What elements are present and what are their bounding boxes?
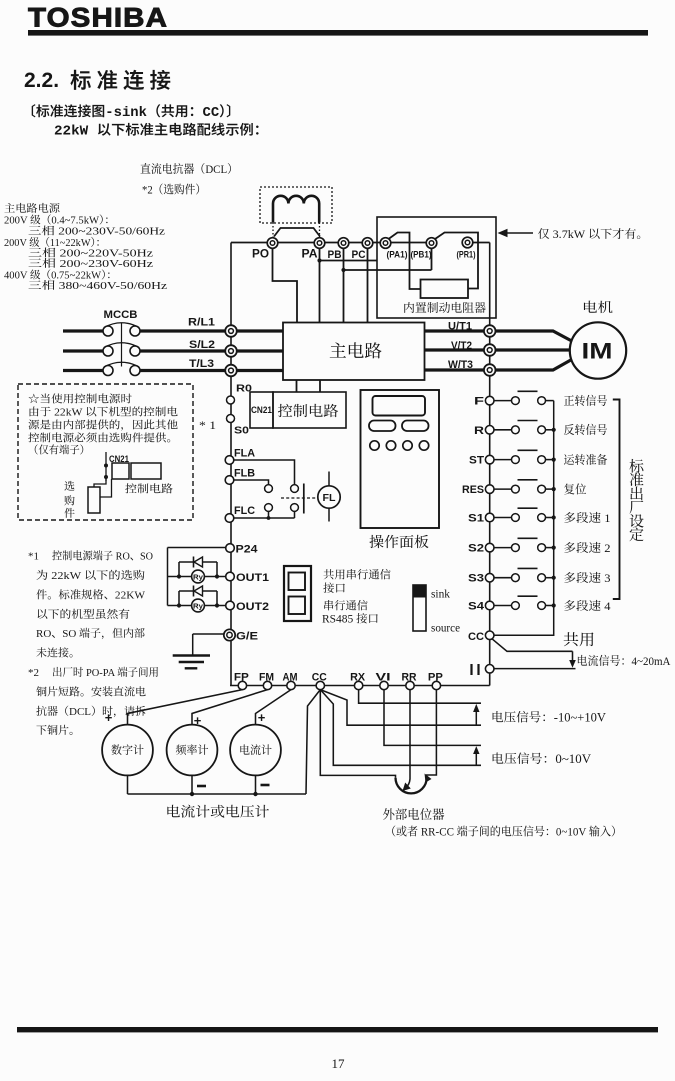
meter current: [230, 725, 281, 776]
wire G/E to ground: [193, 634, 224, 655]
subheading line 2: [54, 123, 268, 140]
wire R/L1: [63, 329, 283, 332]
svg-text:为 22kW 以下的选购: 为 22kW 以下的选购: [36, 569, 145, 582]
svg-text:S/L2: S/L2: [189, 339, 215, 351]
terminal FM bottom: [259, 672, 274, 690]
wire CC return VI: [320, 690, 481, 766]
main circuit box: [283, 323, 425, 381]
svg-text:接口: 接口: [323, 582, 346, 595]
junction S2 common: [552, 546, 556, 550]
mini label control circuit: [125, 483, 173, 496]
label S2 function: [564, 541, 611, 555]
wire T/L3: [63, 369, 283, 372]
svg-text:+: +: [194, 713, 202, 728]
terminal S3: [468, 573, 494, 585]
svg-text:内置制动电阻器: 内置制动电阻器: [403, 301, 486, 315]
plus sign meter3: [258, 710, 266, 725]
svg-text:P24: P24: [236, 544, 258, 556]
terminal T/L3: [189, 358, 237, 376]
mini label option: [64, 480, 75, 520]
terminal R0: [227, 383, 253, 405]
svg-text:R/L1: R/L1: [188, 317, 215, 329]
wire PB1 jumper: [435, 233, 478, 289]
label voltage signal 1: [491, 711, 606, 725]
mini connector box: [112, 463, 129, 479]
wire V/T2: [425, 348, 571, 351]
terminal PO: [252, 238, 278, 261]
svg-text:三相 380~460V-50/60Hz: 三相 380~460V-50/60Hz: [28, 279, 167, 292]
plus sign meter2: [194, 713, 202, 728]
label DCL option: [142, 183, 206, 197]
label DCL reactor: [140, 162, 238, 176]
svg-text:T/L3: T/L3: [189, 358, 214, 370]
terminal PA: [302, 238, 325, 261]
terminal P24: [226, 544, 258, 556]
minus sign meter2: [197, 785, 206, 788]
connector CN21: [250, 392, 273, 428]
label S1 function: [564, 511, 611, 525]
svg-text:S4: S4: [468, 601, 485, 613]
terminal PA1: [380, 238, 407, 261]
terminal FP bottom: [234, 672, 249, 690]
svg-text:铜片短路。安装直流电: 铜片短路。安装直流电: [36, 686, 146, 699]
section heading 2.2: [24, 64, 176, 95]
switch contact S1: [494, 508, 554, 521]
label S3 function: [564, 571, 611, 585]
control circuit box: [273, 392, 346, 428]
svg-text:未连接。: 未连接。: [36, 647, 80, 660]
svg-text:2.2.: 2.2.: [24, 69, 59, 92]
mini wires: [94, 478, 112, 497]
diode D1 branch: [179, 562, 217, 577]
svg-text:定: 定: [629, 527, 644, 544]
svg-text:电机: 电机: [582, 300, 614, 315]
wire switch common collector: [493, 401, 554, 636]
terminal FLB: [225, 468, 255, 485]
operation panel box: [361, 390, 440, 528]
relay Ry1: [192, 570, 205, 583]
svg-text:S1: S1: [468, 513, 484, 525]
svg-text:共用: 共用: [563, 632, 595, 649]
wire W/T3: [425, 360, 571, 370]
svg-text:（或者 RR-CC 端子间的电压信号：0~10V 输入）: （或者 RR-CC 端子间的电压信号：0~10V 输入）: [385, 825, 622, 839]
ground: [173, 656, 210, 669]
Toshiba logo text: [28, 3, 168, 33]
terminal R: [474, 425, 494, 437]
svg-text:W/T3: W/T3: [448, 359, 473, 371]
svg-text:操作面板: 操作面板: [369, 534, 430, 551]
bracket standard settings: [613, 400, 620, 600]
relay contact FL: [265, 484, 304, 519]
junction RES common: [552, 487, 556, 491]
junction S4 common: [552, 603, 556, 607]
terminal VI bottom: [376, 672, 391, 690]
terminal ST: [469, 455, 494, 467]
svg-text:控制电路: 控制电路: [278, 403, 340, 420]
terminal PB1: [411, 238, 437, 261]
FL actuator dashed link: [281, 497, 318, 499]
svg-text:PB: PB: [328, 249, 342, 261]
label S4 function: [564, 599, 611, 613]
wire CC return RX: [320, 690, 481, 726]
arrow only below 3.7kW: [498, 229, 534, 237]
terminal CC: [468, 631, 494, 643]
junction S3 common: [552, 576, 556, 580]
svg-text:*2: *2: [28, 667, 39, 679]
wire stub to control 1: [296, 380, 298, 392]
svg-text:电流计: 电流计: [239, 744, 272, 757]
svg-text:(PA1): (PA1): [387, 250, 408, 261]
label standard factory setting: [629, 459, 644, 545]
terminal PR1: [457, 237, 476, 260]
svg-text:CC: CC: [468, 631, 484, 643]
terminal FLA: [225, 448, 255, 465]
keypad keys: [370, 441, 429, 450]
svg-text:多段速 1: 多段速 1: [564, 511, 611, 525]
svg-text:外部电位器: 外部电位器: [383, 807, 445, 822]
label F function: [564, 394, 608, 408]
footer rule: [17, 1027, 658, 1032]
svg-text:G/E: G/E: [236, 631, 258, 643]
wire VI signal: [384, 690, 481, 746]
svg-text:*2（选购件）: *2（选购件）: [142, 183, 206, 197]
label operation panel: [369, 534, 430, 551]
svg-text:* 1: * 1: [199, 420, 216, 432]
svg-text:PA: PA: [302, 249, 318, 261]
label common serial: [323, 569, 391, 596]
label main circuit: [329, 341, 383, 361]
svg-text:三相 200~230V-50/60Hz: 三相 200~230V-50/60Hz: [28, 225, 165, 238]
svg-text:三相 200~230V-60Hz: 三相 200~230V-60Hz: [28, 257, 153, 270]
label external potentiometer: [383, 807, 445, 822]
svg-text:由于 22kW 以下机型的控制电: 由于 22kW 以下机型的控制电: [28, 406, 178, 419]
wire top terminal row: [231, 242, 432, 244]
svg-text:F: F: [474, 396, 484, 408]
arrow voltage signal 1: [473, 704, 479, 725]
terminal F: [474, 396, 494, 408]
diode D2: [194, 586, 203, 597]
bottom terminal rail: [230, 685, 490, 687]
junctions OUT2: [177, 603, 219, 607]
svg-text:22kW 以下标准主电路配线示例：: 22kW 以下标准主电路配线示例：: [54, 123, 268, 140]
label R function: [564, 423, 608, 437]
svg-text:FM: FM: [259, 672, 274, 684]
arrow current signal: [569, 651, 576, 668]
svg-text:电流计或电压计: 电流计或电压计: [166, 805, 270, 821]
svg-text:控制电源端子 RO、SO: 控制电源端子 RO、SO: [52, 550, 153, 563]
wire AM to meter3: [256, 690, 292, 725]
keypad display: [373, 396, 426, 416]
switch contact ST: [494, 450, 554, 463]
PO-PA copper jumper: [274, 228, 320, 237]
wire OUT1 row: [168, 576, 226, 578]
inductor DCL: [273, 196, 319, 223]
svg-text:VI: VI: [376, 672, 391, 684]
junctions OUT1: [177, 574, 219, 578]
arrow voltage signal 2: [473, 746, 479, 765]
label MCCB: [104, 309, 138, 321]
terminal OUT2: [226, 601, 269, 613]
svg-text:RES: RES: [462, 484, 484, 496]
plus sign meter1: [105, 710, 113, 725]
svg-text:FLA: FLA: [234, 448, 255, 460]
wire P24 left: [168, 548, 226, 606]
svg-text:（仅有端子）: （仅有端子）: [28, 444, 90, 457]
junction S1 common: [552, 515, 556, 519]
svg-text:sink: sink: [431, 589, 450, 601]
wire meter1 down: [127, 775, 129, 794]
switch contact S2: [494, 538, 554, 551]
svg-text:V/T2: V/T2: [451, 340, 472, 352]
svg-text:S0: S0: [234, 425, 249, 437]
resistor braking: [421, 280, 469, 299]
keypad button 1: [369, 421, 396, 432]
svg-text:17: 17: [332, 1056, 346, 1071]
wire RR wiper: [403, 690, 411, 791]
terminal PC: [352, 238, 373, 261]
wire II: [494, 668, 576, 670]
label RR-CC note: [385, 825, 622, 839]
label RES function: [564, 482, 587, 496]
terminal R/L1: [188, 317, 237, 337]
mini option box: [88, 487, 100, 513]
terminal U/T1: [448, 321, 496, 337]
label ST function: [564, 453, 608, 467]
meter common bus: [128, 793, 307, 795]
svg-text:件。标准规格、22KW: 件。标准规格、22KW: [36, 589, 146, 602]
terminal FLC: [225, 505, 255, 522]
meter frequency: [167, 725, 218, 776]
svg-text:*1: *1: [28, 551, 39, 563]
wire stub to control 2: [319, 380, 321, 392]
wire U/T1: [425, 331, 571, 341]
svg-text:source: source: [431, 623, 460, 635]
junction on PB wire: [341, 268, 345, 272]
switch contact S4: [494, 596, 554, 609]
wire meter2 down: [191, 775, 193, 794]
svg-text:AM: AM: [283, 672, 298, 684]
wire PC down: [367, 248, 369, 322]
svg-text:复位: 复位: [564, 482, 587, 496]
built-in brake resistor box: [377, 217, 496, 318]
svg-text:PP: PP: [428, 672, 443, 684]
mini wire CN21: [104, 452, 108, 481]
terminal RES: [462, 484, 494, 496]
label common CC: [563, 632, 595, 649]
svg-text:反转信号: 反转信号: [564, 423, 608, 437]
label meters: [166, 805, 270, 821]
svg-text:下铜片。: 下铜片。: [36, 724, 80, 737]
wire FLC: [234, 517, 295, 519]
terminal RR bottom: [402, 672, 417, 690]
terminal S1: [468, 513, 494, 525]
terminal G/E: [224, 629, 258, 642]
svg-text:运转准备: 运转准备: [564, 453, 608, 467]
switch contact RES: [494, 480, 554, 493]
svg-text:CC: CC: [312, 672, 327, 684]
svg-text:(PR1): (PR1): [457, 250, 476, 261]
svg-text:多段速 2: 多段速 2: [564, 541, 611, 555]
svg-text:控制电路: 控制电路: [125, 483, 173, 496]
wire FP to meter1: [128, 690, 243, 725]
svg-text:FLC: FLC: [234, 505, 255, 517]
label motor: [582, 300, 614, 315]
label voltage signal 2: [491, 752, 591, 766]
mini CN21 label: [109, 454, 129, 464]
wire CC to meter bus: [306, 690, 320, 794]
svg-text:频率计: 频率计: [176, 744, 209, 757]
junction FLC: [267, 516, 271, 520]
wire RX signal: [359, 690, 481, 704]
svg-text:RO、SO 端子，但内部: RO、SO 端子，但内部: [36, 627, 145, 640]
keypad button 2: [402, 421, 429, 432]
switch contact R: [494, 421, 554, 434]
junction ST common: [552, 458, 556, 462]
note *1 marker: [199, 420, 216, 432]
junction on PA wire: [317, 258, 321, 262]
svg-text:☆当使用控制电源时: ☆当使用控制电源时: [28, 393, 132, 406]
svg-text:选: 选: [64, 480, 75, 493]
note main circuit power: [4, 202, 167, 292]
svg-text:主电路: 主电路: [329, 341, 383, 361]
label brake resistor: [403, 301, 486, 315]
wire FLB to contact: [234, 480, 269, 484]
svg-text:共用串行通信: 共用串行通信: [323, 569, 391, 582]
terminal PP bottom: [428, 672, 443, 690]
svg-text:〔标准连接图-sink（共用：CC）〕: 〔标准连接图-sink（共用：CC）〕: [22, 104, 240, 121]
wire PP to pot: [427, 690, 437, 778]
svg-text:以下的机型虽然有: 以下的机型虽然有: [36, 608, 130, 621]
label serial RS485: [322, 600, 379, 626]
svg-text:控制电源必须由选购件提供。: 控制电源必须由选购件提供。: [28, 432, 178, 445]
minus sign meter3: [261, 784, 270, 787]
potentiometer external: [396, 774, 432, 794]
svg-text:正转信号: 正转信号: [564, 394, 608, 408]
svg-text:购: 购: [64, 495, 75, 508]
terminal S0: [227, 415, 250, 437]
footnote *1 and *2: [28, 550, 159, 738]
diode D2 branch: [179, 591, 217, 606]
serial connector: [284, 566, 311, 621]
terminal RX bottom: [350, 672, 365, 690]
motor IM: [570, 322, 626, 378]
note dashed box: [18, 384, 193, 520]
svg-text:PC: PC: [352, 249, 366, 261]
svg-text:仅 3.7kW 以下才有。: 仅 3.7kW 以下才有。: [538, 227, 649, 241]
junction meter3 bus: [253, 792, 257, 796]
terminal CC bottom: [312, 672, 327, 690]
label current signal: [577, 654, 671, 668]
wire S/L2: [63, 349, 283, 352]
junction meter2 bus: [190, 792, 194, 796]
svg-text:件: 件: [64, 507, 75, 520]
svg-text:IM: IM: [582, 339, 613, 364]
svg-text:RX: RX: [350, 672, 365, 684]
terminal II: [472, 664, 495, 675]
junction R common: [552, 428, 556, 432]
svg-text:(PB1): (PB1): [411, 250, 432, 261]
right terminal rail: [489, 243, 491, 686]
terminal AM bottom: [283, 672, 298, 690]
label source: [431, 623, 460, 635]
svg-text:Ry: Ry: [193, 602, 204, 611]
DCL dashed box: [260, 187, 332, 223]
wire CC to pot low: [320, 690, 395, 778]
svg-text:U/T1: U/T1: [448, 321, 472, 333]
terminal PB: [328, 238, 349, 261]
switch contact S3: [494, 568, 554, 581]
svg-text:主电路电源: 主电路电源: [4, 202, 60, 215]
label only below 3.7kW: [538, 227, 649, 241]
svg-text:R: R: [474, 425, 484, 437]
svg-text:ST: ST: [469, 455, 484, 467]
relay Ry2: [192, 599, 205, 612]
mini control box: [131, 463, 161, 479]
svg-text:TOSHIBA: TOSHIBA: [28, 3, 168, 33]
left terminal rail: [230, 243, 232, 686]
svg-text:S2: S2: [468, 543, 484, 555]
meter digital: [102, 725, 153, 776]
wire PR1 to rail: [472, 242, 490, 244]
page number: [332, 1056, 346, 1071]
svg-text:标准连接: 标准连接: [70, 64, 176, 95]
svg-text:+: +: [258, 710, 266, 725]
wire FLA to contact: [234, 460, 295, 484]
wire PA branch: [320, 260, 378, 262]
terminal W/T3: [448, 359, 496, 376]
svg-text:串行通信: 串行通信: [323, 600, 368, 613]
svg-text:多段速 4: 多段速 4: [564, 599, 611, 613]
svg-text:PO: PO: [252, 249, 269, 261]
label sink: [431, 589, 450, 601]
svg-text:电压信号：-10~+10V: 电压信号：-10~+10V: [491, 711, 606, 725]
svg-text:S3: S3: [468, 573, 484, 585]
wire PB to PB1: [344, 248, 432, 270]
svg-text:多段速 3: 多段速 3: [564, 571, 611, 585]
svg-text:抗器（DCL）时，请拆: 抗器（DCL）时，请拆: [36, 705, 146, 718]
wire PO to main circuit: [273, 248, 298, 322]
svg-text:电压信号：0~10V: 电压信号：0~10V: [491, 752, 591, 766]
terminal S/L2: [189, 339, 237, 357]
DCL dotted leads: [273, 223, 320, 239]
svg-text:OUT2: OUT2: [236, 601, 269, 613]
wire FM to meter2: [192, 690, 268, 725]
relay coil FL: [318, 472, 340, 522]
svg-text:直流电抗器（DCL）: 直流电抗器（DCL）: [140, 162, 238, 176]
terminal S4: [468, 601, 494, 613]
terminal OUT1: [226, 572, 269, 584]
wire PB down: [343, 248, 345, 322]
svg-text:Ry: Ry: [193, 573, 204, 582]
note control power text: [28, 393, 178, 457]
wire PA1 jumper: [389, 233, 421, 290]
svg-text:源是由内部提供的，因此其他: 源是由内部提供的，因此其他: [28, 419, 178, 432]
svg-text:出厂时 PO-PA 端子间用: 出厂时 PO-PA 端子间用: [52, 666, 159, 679]
diode D1: [194, 557, 203, 568]
terminal S2: [468, 543, 494, 555]
svg-text:数字计: 数字计: [111, 744, 144, 757]
svg-text:FL: FL: [323, 493, 336, 504]
wire OUT2 row: [168, 605, 226, 607]
svg-text:RR: RR: [402, 672, 417, 684]
switch sink/source: [413, 585, 426, 631]
wire PA down: [319, 248, 321, 322]
switch contact F: [494, 391, 554, 404]
svg-text:CN21: CN21: [251, 405, 273, 416]
wire CC signal return: [492, 639, 573, 652]
breaker MCCB: [103, 323, 140, 376]
svg-text:电流信号：4~20mA: 电流信号：4~20mA: [577, 654, 671, 668]
